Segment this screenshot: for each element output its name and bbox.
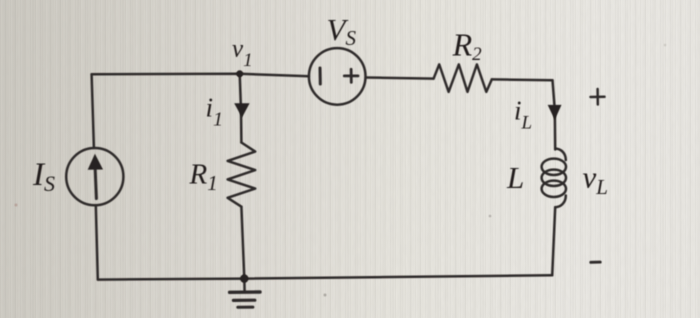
dust speck 3 [15, 204, 18, 207]
voltage source Vs circle [309, 48, 366, 105]
arrow i1 head [234, 103, 249, 117]
resistor R2 [434, 64, 492, 92]
current source arrow shaft [95, 165, 96, 199]
ground bar 1 [230, 290, 260, 294]
ground bar 3 [238, 306, 253, 309]
wire node v1 down to R1 [240, 74, 242, 143]
svg-text:L: L [506, 160, 524, 195]
wire inductor to bottom-right corner [552, 207, 555, 275]
inductor L coil [555, 149, 566, 161]
junction dot (ground node) [240, 274, 248, 282]
wire R2 to top-right corner [492, 78, 553, 81]
dust speck 1 [324, 294, 327, 297]
wire top-left to node v1 and to Vs [92, 74, 309, 77]
dust speck 4 [664, 44, 667, 47]
dust speck 2 [489, 215, 492, 218]
node v1 dot [236, 70, 243, 77]
Vs minus terminal bar [319, 68, 322, 84]
arrow iL head [548, 105, 562, 120]
Vs plus sign [344, 75, 358, 78]
wire right side down to inductor [553, 80, 556, 149]
minus sign (vL polarity) [591, 261, 600, 264]
wire bottom [98, 275, 552, 279]
wire left side [96, 205, 98, 279]
plus sign (vL polarity) [591, 96, 605, 99]
resistor R1 [228, 143, 256, 207]
ground bar 2 [233, 299, 254, 302]
page edge shadow (left) [1, 55, 3, 262]
ground stub [243, 279, 246, 292]
current source arrow head [88, 154, 103, 170]
wire R1 to bottom junction [241, 207, 244, 279]
wire Vs to R2 [366, 78, 434, 79]
current source Is circle [66, 148, 123, 205]
